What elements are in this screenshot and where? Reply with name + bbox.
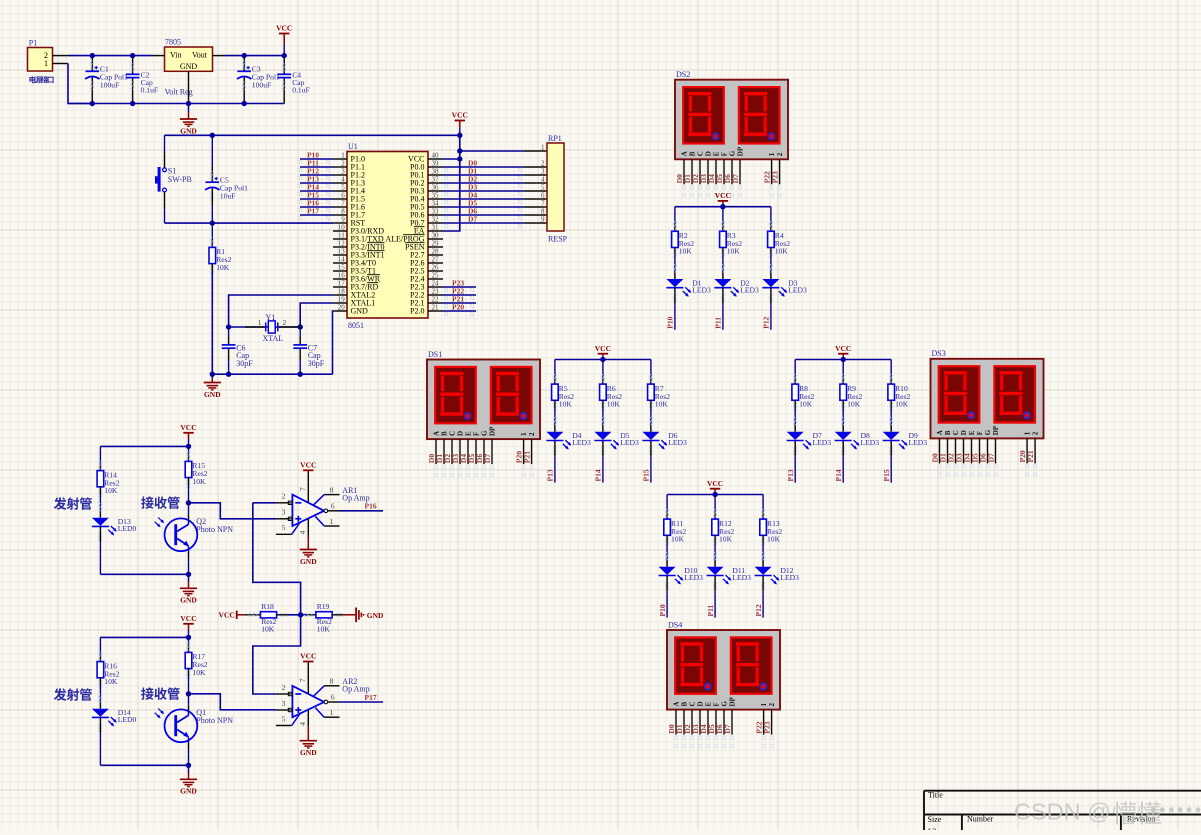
svg-text:GND: GND — [300, 748, 317, 757]
capacitor C5 — [211, 172, 214, 175]
svg-text:P20: P20 — [452, 302, 464, 311]
pin G of DS3 — [987, 438, 989, 463]
display DS2 (dual 7-segment) — [675, 80, 788, 160]
pin D of DS2 — [707, 159, 709, 184]
pin 4 of AR2 (V-) — [307, 710, 309, 727]
LED D7 — [794, 418, 797, 421]
wire LED group rail — [667, 494, 763, 496]
pin 35 of U1 (P0.4) — [428, 198, 443, 200]
svg-text:R18: R18 — [261, 602, 274, 611]
svg-text:10K: 10K — [719, 535, 733, 544]
pin 40 of U1 (VCC) — [428, 158, 443, 160]
svg-text:25: 25 — [432, 272, 440, 280]
pin 17 of U1 (P3.7/RD) — [333, 286, 347, 288]
svg-text:LED3: LED3 — [732, 573, 751, 582]
LED D2 — [721, 265, 724, 268]
svg-text:10K: 10K — [727, 247, 741, 256]
svg-text:1: 1 — [760, 703, 768, 707]
display DS4 (dual 7-segment) — [667, 630, 780, 710]
svg-text:D7: D7 — [483, 454, 492, 463]
pin G of DS4 — [723, 710, 725, 735]
resistor R12 — [714, 510, 717, 513]
wire column R11/D10 — [666, 495, 668, 512]
svg-text:B: B — [689, 151, 697, 156]
wire divider to AR2 inv — [253, 615, 301, 694]
wire column R3/D2 — [722, 207, 724, 224]
display DS1 (dual 7-segment) — [427, 360, 540, 440]
wire net P13 — [300, 182, 333, 184]
pin 25 of U1 (P2.4) — [428, 278, 443, 280]
resistor R1 — [211, 238, 214, 241]
pin DP of DS4 — [731, 710, 733, 735]
pin 2 of U1 (P1.1) — [333, 166, 347, 168]
svg-text:10K: 10K — [775, 247, 789, 256]
wire AR1 pin2 stub — [253, 502, 276, 504]
pin 34 of U1 (P0.5) — [428, 206, 443, 208]
label receiver tube — [141, 687, 154, 699]
wire net D3 — [443, 190, 524, 192]
LED D4 — [553, 418, 556, 421]
display DS3 (dual 7-segment) — [931, 359, 1044, 439]
svg-text:36: 36 — [432, 184, 440, 192]
svg-text:10K: 10K — [559, 400, 573, 409]
svg-text:D: D — [960, 430, 968, 435]
wire column R8/D7 — [794, 360, 796, 377]
svg-text:10K: 10K — [655, 400, 669, 409]
svg-text:Op Amp: Op Amp — [342, 685, 369, 694]
pin 4 of U1 (P1.3) — [333, 182, 347, 184]
svg-text:30: 30 — [432, 232, 440, 240]
wire LED group rail — [555, 359, 651, 361]
wire base to op-amp — [189, 503, 276, 519]
wire crystal gnd rail — [212, 373, 332, 375]
svg-text:P12: P12 — [762, 316, 771, 328]
wire net P17 — [300, 214, 333, 216]
svg-text:7805: 7805 — [165, 37, 181, 46]
svg-text:VCC: VCC — [300, 461, 316, 470]
wire sensor gnd rail — [100, 573, 188, 575]
svg-text:P13: P13 — [546, 469, 555, 481]
wire column R5/D4 — [554, 360, 556, 377]
svg-text:24: 24 — [432, 280, 440, 288]
svg-text:C: C — [449, 431, 457, 436]
pin G of DS2 — [731, 159, 733, 184]
resistor R17 — [187, 643, 190, 646]
svg-text:22: 22 — [432, 296, 440, 304]
resistor R7 — [649, 375, 652, 378]
svg-text:6: 6 — [331, 501, 335, 510]
svg-text:10K: 10K — [607, 400, 621, 409]
capacitor C7 column — [299, 327, 301, 337]
pin 1 of DS4 — [763, 710, 765, 735]
svg-text:A: A — [673, 701, 681, 706]
pin 36 of U1 (P0.3) — [428, 190, 443, 192]
wire net P20 — [443, 310, 476, 312]
svg-text:VCC: VCC — [452, 111, 468, 120]
pin 7 of RP1 — [524, 206, 547, 208]
svg-text:GND: GND — [180, 787, 197, 796]
pin 5 of AR1 — [276, 533, 292, 535]
svg-text:10K: 10K — [767, 535, 781, 544]
pin 1 of DS1 — [523, 439, 525, 464]
svg-text:5: 5 — [282, 523, 286, 532]
svg-text:A: A — [433, 431, 441, 436]
resistor R5 — [553, 375, 556, 378]
svg-text:Size: Size — [928, 815, 942, 824]
transistor Q2 Photo NPN — [188, 503, 190, 515]
resistor R17 column — [188, 637, 190, 644]
svg-text:29: 29 — [432, 240, 440, 248]
svg-text:E: E — [713, 151, 721, 156]
svg-text:G: G — [721, 701, 729, 707]
svg-text:6: 6 — [541, 192, 545, 200]
pin 2 of P1 — [53, 55, 69, 57]
wire net D6 — [443, 214, 524, 216]
svg-text:13: 13 — [338, 248, 346, 256]
svg-text:LED3: LED3 — [668, 438, 687, 447]
svg-text:7: 7 — [541, 200, 545, 208]
pin 2 of AR2 — [276, 693, 291, 695]
pin 5 of RP1 — [524, 190, 547, 192]
svg-text:3: 3 — [282, 508, 286, 517]
label receiver tube — [141, 496, 154, 508]
resistor R3 — [721, 222, 724, 225]
svg-text:100uF: 100uF — [252, 81, 271, 90]
pin 9 of RP1 — [524, 222, 547, 224]
svg-text:5: 5 — [282, 714, 286, 723]
svg-text:7: 7 — [341, 200, 345, 208]
wire output net P16 — [340, 510, 384, 512]
wire RP1 pin1 wire — [460, 150, 524, 152]
pin 10 of U1 (P3.0/RXD) — [333, 230, 347, 232]
pin 27 of U1 (P2.6) — [428, 262, 443, 264]
svg-text:10K: 10K — [895, 400, 909, 409]
svg-text:8: 8 — [341, 208, 345, 216]
LED D13 — [99, 504, 102, 507]
svg-text:P14: P14 — [834, 469, 843, 481]
svg-text:CSDN @: CSDN @ — [1014, 798, 1111, 824]
wire crystal rail — [229, 326, 301, 328]
pin F of DS4 — [715, 710, 717, 735]
svg-text:38: 38 — [432, 168, 440, 176]
pin 23 of U1 (P2.2) — [428, 294, 443, 296]
pin 24 of U1 (P2.3) — [428, 286, 443, 288]
pin 2 of AR1 — [276, 502, 291, 504]
resistor R16 column — [99, 637, 101, 653]
svg-text:VCC: VCC — [715, 191, 731, 200]
svg-text:1: 1 — [1024, 431, 1032, 435]
svg-text:DS2: DS2 — [676, 70, 690, 79]
wire LED group rail — [795, 359, 891, 361]
svg-text:10K: 10K — [799, 400, 813, 409]
svg-text:35: 35 — [432, 192, 440, 200]
svg-text:1: 1 — [520, 432, 528, 436]
svg-text:Vin: Vin — [170, 50, 182, 59]
svg-text:A: A — [681, 151, 689, 156]
svg-text:VCC: VCC — [219, 611, 235, 620]
pin 26 of U1 (P2.5) — [428, 270, 443, 272]
pin 9 of U1 (RST) — [333, 222, 347, 224]
svg-text:A: A — [936, 430, 944, 435]
ground — [188, 574, 190, 582]
svg-text:LED3: LED3 — [788, 285, 807, 294]
resistor R19 — [305, 613, 308, 616]
wire base to op-amp — [189, 694, 276, 710]
wire net P22 — [443, 294, 476, 296]
wire net P23 — [443, 286, 476, 288]
pin 5 of U1 (P1.4) — [333, 190, 347, 192]
svg-text:10K: 10K — [104, 677, 118, 686]
LED D11 — [714, 553, 717, 556]
pin 1 of U1 (P1.0) — [333, 158, 347, 160]
svg-text:DP: DP — [729, 696, 737, 706]
svg-text:100uF: 100uF — [100, 81, 119, 90]
pin 1 of AR2 — [324, 716, 339, 718]
pin 22 of U1 (P2.1) — [428, 302, 443, 304]
svg-text:10K: 10K — [216, 263, 230, 272]
pin A of DS4 — [675, 710, 677, 735]
resistor R2 — [673, 222, 676, 225]
wire column R4/D3 — [770, 207, 772, 224]
pin 3 of U1 (P1.2) — [333, 174, 347, 176]
svg-text:P12: P12 — [754, 604, 763, 616]
capacitor C3 — [243, 61, 246, 64]
svg-text:LED3: LED3 — [620, 438, 639, 447]
pin B of DS4 — [683, 710, 685, 735]
svg-text:2: 2 — [282, 683, 286, 692]
pin C of DS3 — [955, 438, 957, 463]
pin 1 of DS3 — [1026, 438, 1028, 463]
wire net D5 — [443, 206, 524, 208]
svg-text:17: 17 — [338, 280, 346, 288]
LED D1 — [673, 265, 676, 268]
svg-text:10K: 10K — [679, 247, 693, 256]
svg-text:Number: Number — [967, 814, 994, 823]
svg-text:6: 6 — [341, 192, 345, 200]
pin E of DS2 — [715, 159, 717, 184]
svg-text:F: F — [721, 152, 729, 156]
svg-text:F: F — [976, 431, 984, 435]
svg-text:GND: GND — [180, 62, 198, 71]
svg-text:LED0: LED0 — [118, 524, 137, 533]
svg-text:G: G — [481, 430, 489, 436]
wire column R2/D1 — [674, 207, 676, 224]
pin 32 of U1 (P0.7) — [428, 222, 443, 224]
resistor R11 — [666, 510, 669, 513]
pin 31 of U1 (EA) — [428, 230, 443, 232]
IC U1 8051 — [347, 152, 428, 319]
resistor R6 — [601, 375, 604, 378]
LED D10 — [666, 553, 669, 556]
svg-text:DS1: DS1 — [428, 350, 442, 359]
wire VCC rail above U1 — [165, 134, 460, 136]
svg-text:10K: 10K — [104, 486, 118, 495]
pin D of DS1 — [459, 439, 461, 464]
svg-text:2: 2 — [341, 160, 345, 168]
svg-text:27: 27 — [432, 256, 440, 264]
svg-text:20: 20 — [338, 304, 346, 312]
pin 1 of AR1 — [324, 525, 339, 527]
resistor R15 — [187, 452, 190, 455]
resistor R14 — [99, 461, 102, 464]
wire net D4 — [443, 198, 524, 200]
ground — [211, 374, 213, 379]
svg-text:28: 28 — [432, 248, 440, 256]
svg-text:LED3: LED3 — [740, 285, 759, 294]
svg-text:P13: P13 — [786, 469, 795, 481]
wire GND pin riser — [332, 311, 335, 374]
svg-text:1: 1 — [330, 517, 334, 526]
resistor pack RP1 RESP — [547, 143, 564, 231]
wire net P11 — [300, 166, 333, 168]
svg-text:F: F — [473, 432, 481, 436]
capacitor C4 — [283, 64, 286, 67]
pin D of DS3 — [963, 438, 965, 463]
pin 8 of U1 (P1.7) — [333, 214, 347, 216]
wire column R9/D8 — [842, 360, 844, 377]
svg-text:DS4: DS4 — [668, 620, 682, 629]
svg-text:3: 3 — [541, 168, 545, 176]
pin 3 of AR2 — [276, 709, 291, 711]
op-amp AR2 — [292, 686, 324, 717]
svg-text:37: 37 — [432, 176, 440, 184]
svg-text:GND: GND — [351, 307, 369, 316]
svg-text:Title: Title — [928, 791, 943, 800]
pin 2 of DS3 — [1034, 438, 1036, 463]
switch S1 SW-PB — [164, 135, 166, 151]
wire column R10/D9 — [890, 360, 892, 377]
pin F of DS2 — [723, 159, 725, 184]
wire EA tie high — [443, 135, 460, 231]
svg-text:DP: DP — [737, 146, 745, 156]
resistor R13 — [762, 510, 765, 513]
pin 28 of U1 (P2.7) — [428, 254, 443, 256]
pin 6 of AR1 (out) — [324, 509, 328, 513]
svg-text:Photo NPN: Photo NPN — [196, 525, 233, 534]
svg-text:0.1uF: 0.1uF — [292, 85, 310, 94]
svg-text:3: 3 — [282, 699, 286, 708]
wire output net P17 — [340, 701, 384, 703]
pin C of DS4 — [691, 710, 693, 735]
svg-text:XTAL: XTAL — [263, 334, 284, 343]
svg-text:8: 8 — [541, 208, 545, 216]
LED D3 — [769, 265, 772, 268]
svg-text:RESP: RESP — [548, 234, 568, 243]
svg-text:7: 7 — [298, 678, 307, 682]
svg-text:8051: 8051 — [348, 321, 364, 330]
svg-text:P2.0: P2.0 — [410, 307, 424, 316]
capacitor C1 — [91, 61, 94, 64]
svg-text:P15: P15 — [882, 469, 891, 481]
wire net D1 — [443, 174, 524, 176]
svg-text:LED3: LED3 — [909, 438, 928, 447]
svg-text:DP: DP — [992, 425, 1000, 435]
svg-text:19: 19 — [338, 296, 346, 304]
label emitter tube — [54, 688, 67, 701]
pin D of DS4 — [699, 710, 701, 735]
pin DP of DS1 — [491, 439, 493, 464]
pin 2 of RP1 — [524, 166, 547, 168]
wire net D2 — [443, 182, 524, 184]
wire column R6/D5 — [602, 360, 604, 377]
svg-text:7: 7 — [298, 487, 307, 491]
pin 30 of U1 (ALE/PROG) — [428, 238, 443, 240]
resistor R16 — [99, 652, 102, 655]
transistor Q1 Photo NPN — [188, 694, 190, 706]
svg-text:10K: 10K — [847, 400, 861, 409]
capacitor C6 column — [228, 327, 230, 337]
capacitor C1 column — [91, 56, 93, 72]
svg-text:8: 8 — [330, 485, 334, 494]
wire column R12/D11 — [714, 495, 716, 512]
svg-text:VCC: VCC — [835, 344, 851, 353]
LED D12 — [762, 553, 765, 556]
wire net D0 — [443, 166, 524, 168]
junction base node — [186, 691, 191, 696]
wire net P15 — [300, 198, 333, 200]
svg-text:D7: D7 — [723, 724, 732, 733]
svg-text:LED3: LED3 — [692, 285, 711, 294]
pin 19 of U1 (XTAL1) — [333, 302, 347, 304]
junction divider mid — [298, 612, 303, 617]
svg-text:LED3: LED3 — [780, 573, 799, 582]
pin C of DS1 — [451, 439, 453, 464]
svg-text:DP: DP — [489, 426, 497, 436]
wire net P16 — [300, 206, 333, 208]
LED D8 — [842, 418, 845, 421]
svg-text:VCC: VCC — [276, 24, 292, 33]
svg-text:GND: GND — [367, 611, 384, 620]
svg-text:LED3: LED3 — [572, 438, 591, 447]
pin 1 of P1 — [53, 63, 69, 65]
pin A of DS3 — [939, 438, 941, 463]
pin 33 of U1 (P0.6) — [428, 214, 443, 216]
svg-text:VCC: VCC — [595, 344, 611, 353]
svg-text:P23: P23 — [771, 171, 780, 183]
wire net P14 — [300, 190, 333, 192]
svg-text:LED3: LED3 — [813, 438, 832, 447]
pin 5 of AR2 — [276, 725, 292, 727]
pin 8 of AR2 — [324, 685, 339, 687]
svg-text:G: G — [729, 150, 737, 156]
pin 38 of U1 (P0.1) — [428, 174, 443, 176]
pin 37 of U1 (P0.2) — [428, 182, 443, 184]
title block — [924, 790, 1201, 792]
svg-text:10K: 10K — [192, 477, 206, 486]
svg-text:11: 11 — [338, 232, 345, 240]
pin 14 of U1 (P3.4/T0) — [333, 262, 347, 264]
resistor R10 — [890, 375, 893, 378]
pin 11 of U1 (P3.1/TXD) — [333, 238, 347, 240]
svg-text:D7: D7 — [468, 214, 477, 223]
svg-text:LED3: LED3 — [684, 573, 703, 582]
svg-text:2: 2 — [768, 703, 776, 707]
resistor R8 — [794, 375, 797, 378]
svg-text:P15: P15 — [642, 469, 651, 481]
pin Vin of 7805 — [153, 55, 165, 57]
pin Vout of 7805 — [213, 55, 226, 57]
wire R1 to gnd — [211, 272, 213, 375]
svg-text:33: 33 — [432, 208, 440, 216]
svg-text:RP1: RP1 — [548, 134, 562, 143]
svg-text:30pF: 30pF — [236, 359, 253, 368]
svg-text:LED0: LED0 — [118, 715, 137, 724]
capacitor C2 — [131, 64, 134, 67]
svg-text:P10: P10 — [658, 604, 667, 616]
wire P1.2 to 7805 Vin — [68, 55, 153, 57]
pin C of DS2 — [699, 159, 701, 184]
svg-text:GND: GND — [180, 596, 197, 605]
